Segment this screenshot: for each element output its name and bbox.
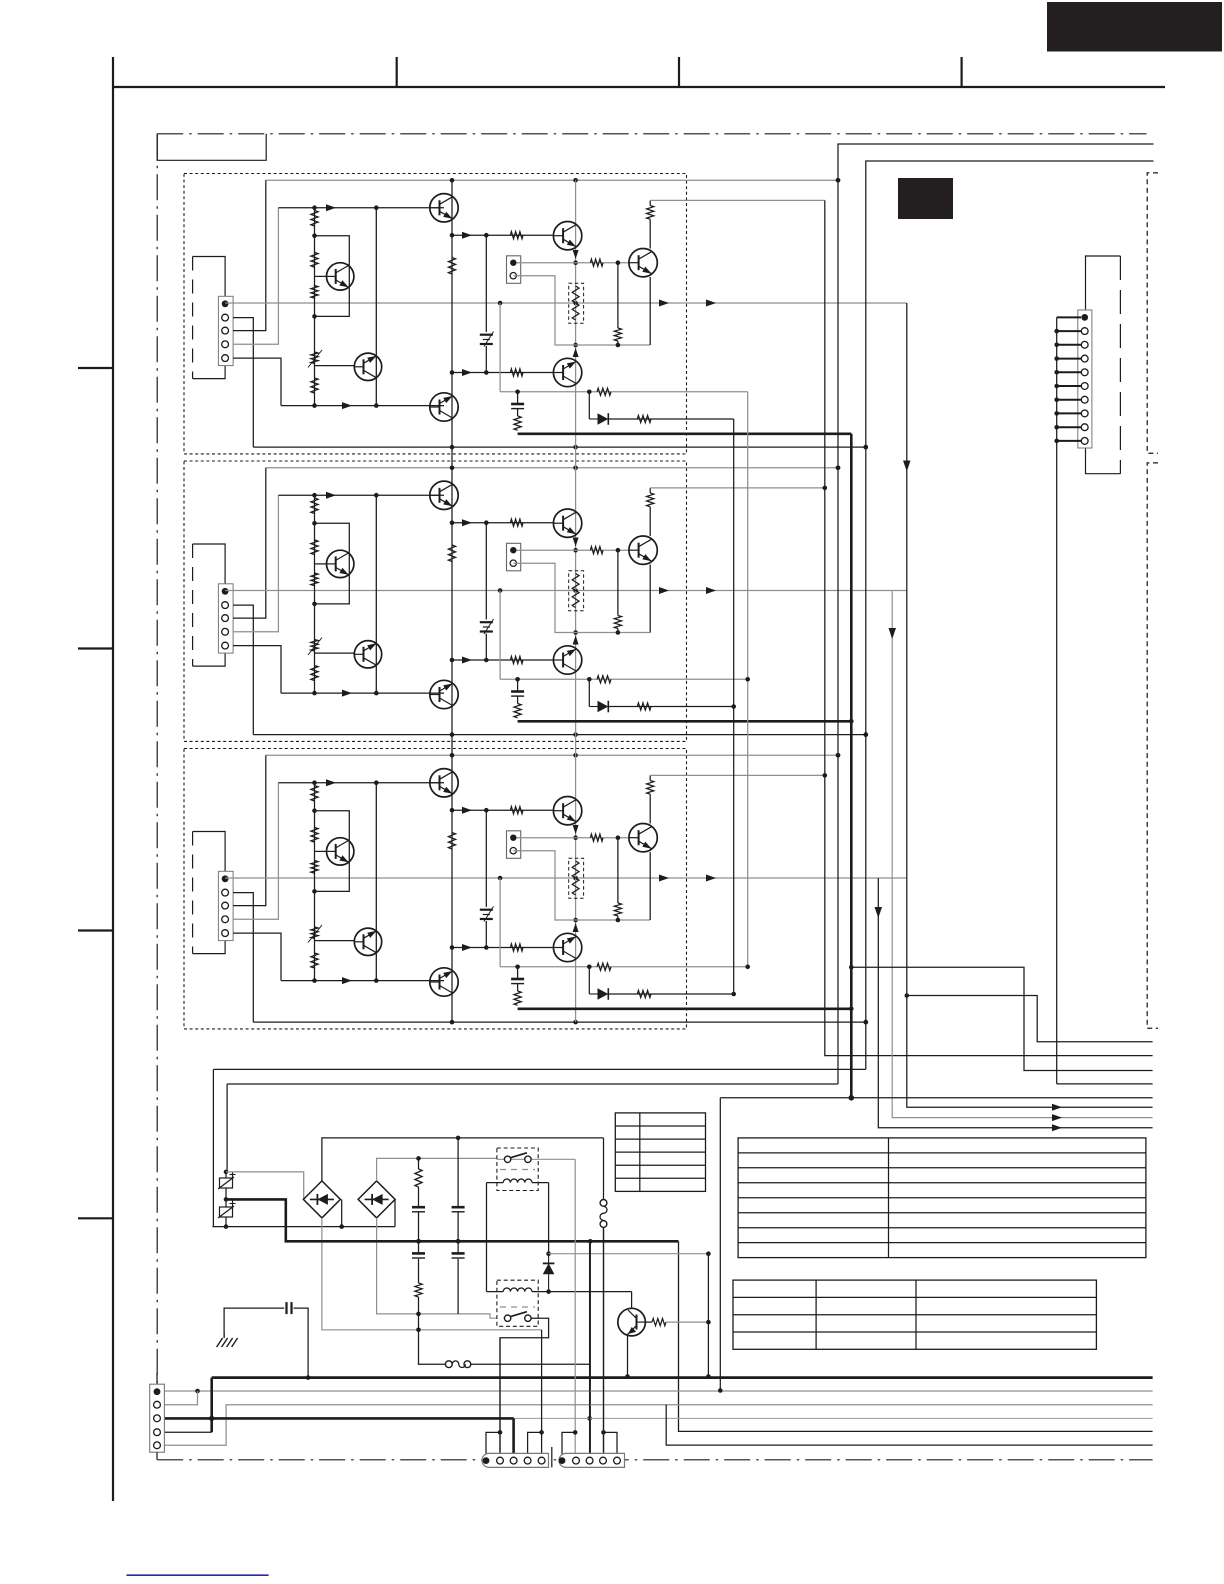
bus A junctions — [731, 704, 736, 709]
relay RY1 switch — [504, 1153, 531, 1163]
bridge rectifier BR1 — [303, 1181, 340, 1218]
frame tick left 3 — [78, 929, 113, 931]
filter chain junctions — [416, 1156, 421, 1161]
wire bottom thick bus — [212, 1376, 1153, 1379]
connector CN-L body — [150, 1384, 165, 1452]
main supply junctions — [416, 1239, 421, 1244]
bus wire J — [907, 996, 1153, 1042]
line1 junctions — [195, 1389, 200, 1394]
wire Q201 collector — [631, 1292, 633, 1309]
wire ground branch — [224, 1308, 284, 1337]
wire inductor top — [603, 1138, 605, 1200]
wire pin3 line thin — [514, 1417, 1153, 1419]
filter 2 junction — [456, 1239, 461, 1244]
wire bridge1 bottom — [322, 1218, 542, 1330]
resistor R201 — [415, 1169, 422, 1187]
relay RY1 switch line — [497, 1158, 575, 1160]
relay RY2 divider — [500, 1306, 535, 1308]
bus wire H ch2 out — [892, 591, 1152, 1118]
wire main supply thick — [226, 1199, 679, 1241]
diode D201 — [543, 1254, 555, 1292]
inductor L201 — [600, 1200, 607, 1228]
capacitor C205 — [287, 1302, 292, 1314]
footer blue rule — [127, 1574, 269, 1576]
output connector frame dashed side — [1119, 256, 1121, 474]
fuse column — [225, 1172, 227, 1227]
ch2 out arrow — [889, 628, 897, 639]
ch1 out arrow — [903, 461, 911, 472]
amplifier channel 3 — [184, 749, 907, 1029]
pcb border top — [157, 133, 1146, 135]
conn A vert 5 — [541, 1330, 543, 1454]
sense junction — [706, 1251, 711, 1256]
fuse F1 — [218, 1172, 236, 1190]
conn A vert 3 thick — [512, 1418, 515, 1453]
transistor Q201 — [618, 1308, 646, 1336]
parts table small — [615, 1113, 705, 1192]
capacitor C201 — [412, 1207, 425, 1212]
black label box — [898, 178, 953, 219]
frame tick left 1 — [78, 367, 113, 369]
thick bus junctions — [306, 1375, 311, 1380]
wire bottom line 2 — [164, 1405, 1152, 1446]
wire coil right link — [548, 1183, 550, 1254]
connector divider tick — [551, 1447, 553, 1467]
wire supply corner down — [679, 1241, 1153, 1431]
wire bridge1 right drop — [341, 1199, 343, 1226]
connector CN-L stub — [156, 1373, 158, 1384]
pcb border bottom — [157, 1459, 1152, 1461]
bus L junction — [849, 1096, 854, 1101]
CN-A pins — [483, 1457, 545, 1464]
pcb border left — [156, 134, 158, 1384]
wire Q201 base line — [666, 1321, 708, 1323]
frame tick top 3 — [960, 57, 962, 87]
page frame rule top — [113, 86, 1165, 88]
ac return junctions — [339, 1224, 344, 1229]
bus wire L drop — [719, 1098, 721, 1391]
bus wire G ch3 out — [878, 878, 1152, 1128]
parts table large — [738, 1138, 1146, 1258]
relay RY2 switch — [504, 1312, 531, 1322]
ch3 out arrow — [1052, 1124, 1062, 1131]
conn B vert 4 — [603, 1227, 605, 1453]
psu feed line upper — [212, 1069, 214, 1226]
conn A vert 2 — [499, 1338, 501, 1454]
CN-B pins — [559, 1457, 621, 1464]
parts table lower — [733, 1280, 1096, 1349]
filter chain 2 vertical — [457, 1138, 459, 1314]
pair bracket A45 — [528, 1432, 542, 1456]
wire bridge2 right drop — [394, 1199, 396, 1226]
wire bridge1 ac feed — [226, 1172, 304, 1200]
frame tick left 4 — [78, 1217, 113, 1219]
filter chain vertical — [418, 1158, 420, 1364]
bus B junctions — [745, 677, 750, 682]
CN-L pins — [154, 1388, 161, 1448]
relay RY1 divider — [500, 1169, 535, 1171]
psu feed line lower — [226, 1084, 228, 1172]
relay RY1 coil — [503, 1179, 532, 1183]
wire inductor bottom — [603, 1227, 605, 1453]
wire bridge2 top — [377, 1158, 497, 1181]
wire relay drive drop — [589, 1241, 591, 1453]
connector CN-A body — [482, 1453, 548, 1467]
output connector stub dots — [1054, 329, 1059, 443]
pin3 junction — [209, 1416, 214, 1421]
wire sense line — [549, 1253, 709, 1255]
conn B vert 2 — [574, 1159, 576, 1453]
resistor R203 — [652, 1319, 666, 1326]
wire cap to drop — [294, 1308, 309, 1378]
bridge2 bottom junction — [416, 1312, 421, 1317]
wire line filter — [418, 1363, 590, 1365]
output connector bus — [1056, 317, 1058, 1084]
capacitor C204 — [452, 1253, 465, 1258]
rail stub 2b — [575, 735, 577, 756]
bus wire K — [851, 967, 1152, 1070]
relay RY1 box — [497, 1148, 538, 1191]
bridge rectifier BR2 — [358, 1181, 395, 1218]
bridge1 bottom junction — [416, 1328, 421, 1333]
wire bridge1 top — [322, 1138, 604, 1181]
rail stub 2a — [451, 735, 453, 756]
relay RY2 coil — [503, 1288, 532, 1292]
output connector frame — [1086, 256, 1121, 474]
bus wire F vminus — [213, 161, 1153, 1069]
bus F junctions — [864, 445, 869, 450]
conn B vert 3 — [589, 1241, 591, 1454]
output connector stubs — [1057, 317, 1081, 441]
wire ac return line — [212, 1226, 395, 1228]
bus wire B — [747, 392, 749, 967]
bus wire C — [825, 200, 1153, 1055]
fuse F2 — [218, 1201, 236, 1219]
right dotted box 2 — [1147, 463, 1158, 1028]
relay RY2 box — [497, 1280, 538, 1326]
rail stub 1b — [575, 447, 577, 468]
bus wire A — [733, 419, 735, 994]
frame tick left 2 — [78, 647, 113, 649]
capacitor C203 — [452, 1207, 465, 1212]
bus wire I ch1 out — [907, 303, 1153, 1107]
connector CN-B body — [559, 1453, 625, 1467]
bridge1 top junction — [456, 1136, 461, 1141]
output connector body — [1078, 310, 1092, 448]
wire aux drop — [707, 1254, 709, 1377]
wire thick left drop — [210, 1378, 213, 1433]
amplifier channel 2 — [184, 461, 907, 741]
rail stub 1a — [451, 447, 453, 468]
wire bridge2 bottom — [377, 1218, 497, 1318]
frame tick top 1 — [396, 57, 398, 87]
inductor L202 — [445, 1361, 470, 1368]
fuse column junctions — [224, 1170, 229, 1175]
page frame rule left — [112, 57, 114, 1501]
pair bracket B45 — [604, 1432, 618, 1456]
pair bracket B12 — [562, 1432, 576, 1456]
relay RY2 coil leads — [487, 1291, 504, 1293]
bus E junctions — [849, 719, 854, 724]
bus I junction — [905, 993, 910, 998]
CN-L bottom link — [156, 1452, 158, 1460]
bus wire E output thick — [850, 434, 853, 1098]
pcb border notch — [157, 134, 266, 161]
relay RY2 switch out — [500, 1318, 549, 1453]
output connector pins — [1081, 314, 1088, 444]
amplifier channel 1 — [184, 174, 907, 454]
wire pin4 link — [164, 1431, 211, 1433]
coil link junctions — [546, 1251, 551, 1256]
base line junction — [706, 1320, 711, 1325]
wire bottom line 3 — [666, 1405, 1152, 1445]
relay drive junction — [587, 1416, 592, 1421]
wire bottom line 1 — [164, 1390, 1152, 1392]
pair bracket A12 — [486, 1432, 500, 1456]
bus D junctions — [836, 178, 841, 183]
resistor R202 — [415, 1283, 422, 1297]
capacitor C202 — [412, 1253, 425, 1258]
wire thick pin3 line — [164, 1417, 513, 1420]
bus wire L relay feed — [720, 1097, 1152, 1099]
wire coil left link — [486, 1183, 488, 1292]
ground symbol — [217, 1332, 238, 1347]
bus wire D vplus — [227, 144, 1153, 1084]
title block black box — [1047, 2, 1222, 52]
wire pin2 jog — [164, 1391, 197, 1405]
right dotted box 1 — [1147, 173, 1158, 453]
frame tick top 2 — [678, 57, 680, 87]
wire Q201 emitter — [627, 1334, 629, 1377]
relay RY1 coil leads — [487, 1182, 504, 1184]
output connector bus exit — [1057, 1083, 1153, 1085]
bus C junctions — [823, 486, 828, 491]
